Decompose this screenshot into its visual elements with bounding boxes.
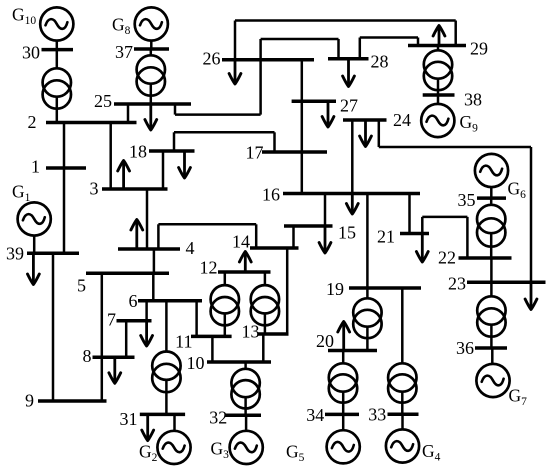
bus 27 — [292, 100, 336, 104]
bus 15 — [284, 224, 333, 228]
load at bus 18 — [179, 151, 191, 178]
bus 24 — [343, 118, 387, 122]
wire line 16-19 — [366, 194, 369, 289]
wire line 25-26 — [175, 39, 261, 115]
bus 34 — [325, 413, 359, 417]
wire bus 33 to G4 — [401, 414, 404, 430]
bus 39 — [27, 251, 79, 255]
load at bus 31 — [142, 414, 154, 440]
generator G7 — [476, 364, 509, 397]
transformer 19-20 — [353, 298, 381, 338]
wire line 9-39 — [52, 253, 55, 401]
bus 17 — [262, 150, 327, 154]
generator G2 — [157, 431, 190, 464]
wire line 17-18 — [174, 132, 275, 152]
generator G3 — [230, 431, 263, 464]
wire bus 10 - T - bus 32 — [244, 362, 247, 415]
load at bus 16 — [346, 194, 358, 215]
svg-text:21: 21 — [377, 227, 395, 247]
svg-text:18: 18 — [129, 142, 147, 162]
bus 16 — [283, 192, 420, 196]
wire bus 32 to G3 — [245, 415, 248, 432]
wire line 26-29 — [235, 21, 456, 60]
bus 26 — [222, 58, 314, 62]
wire line 10-13 — [262, 334, 265, 362]
load at bus 12 (up) — [239, 252, 251, 273]
svg-text:32: 32 — [209, 408, 227, 428]
bus 1 — [46, 166, 86, 170]
svg-text:30: 30 — [22, 43, 40, 63]
bus 23 — [467, 280, 546, 284]
load at bus 4 (up) — [131, 220, 143, 250]
generator G4 — [386, 429, 419, 462]
svg-text:2: 2 — [28, 112, 37, 132]
wire line 6-7 — [145, 301, 148, 321]
transformer 2-30 — [43, 68, 71, 108]
wire line 16-24 — [351, 120, 354, 194]
generator G9 — [421, 104, 454, 137]
bus 36 — [475, 346, 507, 350]
bus 14 — [250, 246, 299, 250]
transformer 6-31 — [152, 352, 180, 393]
wire line 16-21 — [408, 194, 411, 234]
wire line 6-11 — [195, 301, 198, 337]
wire bus 19 - T - bus 20 — [366, 288, 369, 351]
wire line 2-3 — [109, 123, 112, 190]
load at bus 26 — [229, 60, 241, 84]
svg-text:23: 23 — [448, 274, 466, 294]
bus 4 — [118, 247, 180, 251]
svg-text:9: 9 — [25, 391, 34, 411]
svg-text:11: 11 — [175, 332, 192, 352]
bus 13 — [258, 332, 289, 336]
wire bus 12 - T - bus 13 — [264, 272, 267, 334]
wire bus 38 to G9 — [437, 95, 440, 106]
bus 2 — [46, 121, 137, 125]
svg-text:14: 14 — [232, 232, 250, 252]
svg-text:16: 16 — [262, 185, 280, 205]
bus 20 — [328, 349, 377, 353]
wire bus 6 - T - bus 31 — [165, 301, 168, 415]
load at bus 8 — [109, 357, 121, 383]
svg-text:29: 29 — [470, 39, 488, 59]
bus 11 — [191, 335, 232, 339]
svg-text:4: 4 — [186, 238, 195, 258]
wire G10 to bus 30 — [56, 41, 59, 50]
wire bus 29 - T - bus 38 — [437, 46, 440, 96]
wire line 26-27-17-16 — [301, 60, 304, 194]
svg-text:26: 26 — [203, 49, 221, 69]
transformer 12-11 — [211, 285, 239, 325]
svg-text:22: 22 — [438, 248, 456, 268]
load at bus 28 — [343, 59, 355, 87]
generator G10 — [40, 7, 73, 40]
wire G1 to bus 39 — [33, 234, 36, 254]
wire line 23-24 — [379, 120, 531, 282]
bus 7 — [117, 319, 152, 323]
load at bus 15 — [319, 226, 331, 253]
wire line 3-4 — [146, 189, 149, 249]
svg-text:33: 33 — [368, 405, 386, 425]
bus 35 — [477, 196, 506, 200]
generator G8 — [135, 7, 168, 40]
wire bus 22 - T - bus 35 — [490, 198, 493, 258]
wire bus 31 to G2 — [173, 414, 176, 432]
svg-text:6: 6 — [129, 291, 138, 311]
wire bus 35 to G6 — [490, 188, 493, 198]
wire bus 30 - T - bus 2 — [56, 50, 59, 123]
svg-text:10: 10 — [187, 353, 205, 373]
transformer 20-34 — [329, 363, 357, 402]
wire line 15-16 — [324, 194, 327, 227]
load at bus 7 — [141, 321, 153, 346]
svg-text:17: 17 — [246, 143, 264, 163]
svg-text:8: 8 — [83, 346, 92, 366]
wire bus 20 - T - bus 34 — [342, 351, 345, 415]
wire line 2-25 — [127, 104, 130, 123]
load at bus 3 (up) — [118, 161, 130, 190]
bus 32 — [225, 413, 261, 417]
transformer 25-37 — [137, 55, 165, 95]
wire bus 19 - T - bus 33 — [401, 288, 404, 414]
bus 22 — [459, 256, 512, 260]
svg-text:15: 15 — [338, 223, 356, 243]
bus 37 — [134, 47, 169, 51]
generator G1 — [18, 202, 51, 235]
wire bus 34 to G5 — [342, 414, 345, 431]
wire line 1-2 and 1-39 — [63, 123, 66, 254]
transformer 12-13 — [251, 285, 279, 325]
wire line 3-18 — [162, 151, 165, 189]
wire line 4-5 — [153, 249, 156, 273]
wire line 5-8 and 8-9 — [101, 273, 104, 401]
bus 29 — [408, 44, 466, 48]
wire G8 to bus 37 — [150, 41, 153, 50]
bus 19 — [349, 286, 421, 290]
generator G5 — [327, 430, 360, 463]
bus 33 — [388, 413, 419, 417]
svg-text:20: 20 — [316, 331, 334, 351]
bus 10 — [207, 360, 271, 364]
bus 30 — [42, 48, 74, 52]
transformer 23-36 — [477, 296, 505, 336]
wire line 4-14 — [158, 224, 256, 249]
load at bus 24 — [360, 120, 372, 147]
transformer 10-32 — [231, 369, 259, 409]
load at bus 27 — [322, 101, 334, 127]
transformer 19-33 — [388, 363, 416, 402]
svg-text:12: 12 — [200, 258, 218, 278]
wire line 28-29 — [360, 38, 418, 59]
transformer 22-35 — [477, 205, 505, 247]
wire line 14-15 — [292, 226, 295, 248]
transformer 29-38 — [424, 50, 452, 90]
svg-text:28: 28 — [371, 52, 389, 72]
wire line 5-6 — [152, 273, 155, 301]
svg-text:19: 19 — [326, 279, 344, 299]
svg-text:37: 37 — [115, 42, 133, 62]
wire bus 36 to G7 — [491, 348, 494, 365]
bus 3 — [102, 187, 168, 191]
bus 18 — [149, 149, 195, 153]
svg-text:31: 31 — [120, 409, 138, 429]
bus 9 — [38, 399, 107, 403]
svg-text:3: 3 — [90, 179, 99, 199]
wire line 21-22 — [422, 217, 467, 258]
svg-text:24: 24 — [393, 110, 411, 130]
svg-text:7: 7 — [107, 310, 116, 330]
bus 6 — [138, 299, 202, 303]
load at bus 23 — [525, 282, 537, 309]
wire line 10-11 — [211, 336, 214, 362]
wire line 7-8 — [125, 321, 128, 358]
wire bus 37 - T - bus 25 — [150, 49, 153, 104]
bus 12 — [218, 270, 271, 274]
wire line 22-23 — [490, 258, 493, 282]
load at bus 20 (up) — [338, 322, 350, 351]
svg-text:13: 13 — [242, 322, 260, 342]
svg-text:25: 25 — [94, 91, 112, 111]
bus 21 — [400, 232, 429, 236]
svg-text:36: 36 — [456, 338, 474, 358]
load at bus 29 (up) — [433, 26, 445, 46]
svg-text:35: 35 — [458, 190, 476, 210]
bus 5 — [86, 272, 169, 276]
wire line 13-14 — [286, 248, 289, 334]
load at bus 39 — [28, 253, 40, 284]
wire bus 23 - T - bus 36 — [490, 282, 493, 348]
svg-text:5: 5 — [77, 276, 86, 296]
bus 25 — [114, 102, 191, 106]
generator G6 — [475, 154, 508, 187]
load at bus 21 — [416, 234, 428, 263]
bus 38 — [423, 93, 455, 97]
svg-text:39: 39 — [6, 244, 24, 264]
load at bus 25 — [145, 104, 157, 130]
svg-text:38: 38 — [464, 90, 482, 110]
bus 8 — [93, 356, 135, 360]
wire line 26-28 — [261, 39, 339, 59]
bus 31 — [140, 413, 185, 417]
svg-text:34: 34 — [306, 405, 324, 425]
svg-text:27: 27 — [340, 96, 358, 116]
wire bus 12 - T - bus 11 — [224, 272, 227, 336]
svg-text:1: 1 — [31, 157, 40, 177]
bus 28 — [328, 57, 369, 61]
